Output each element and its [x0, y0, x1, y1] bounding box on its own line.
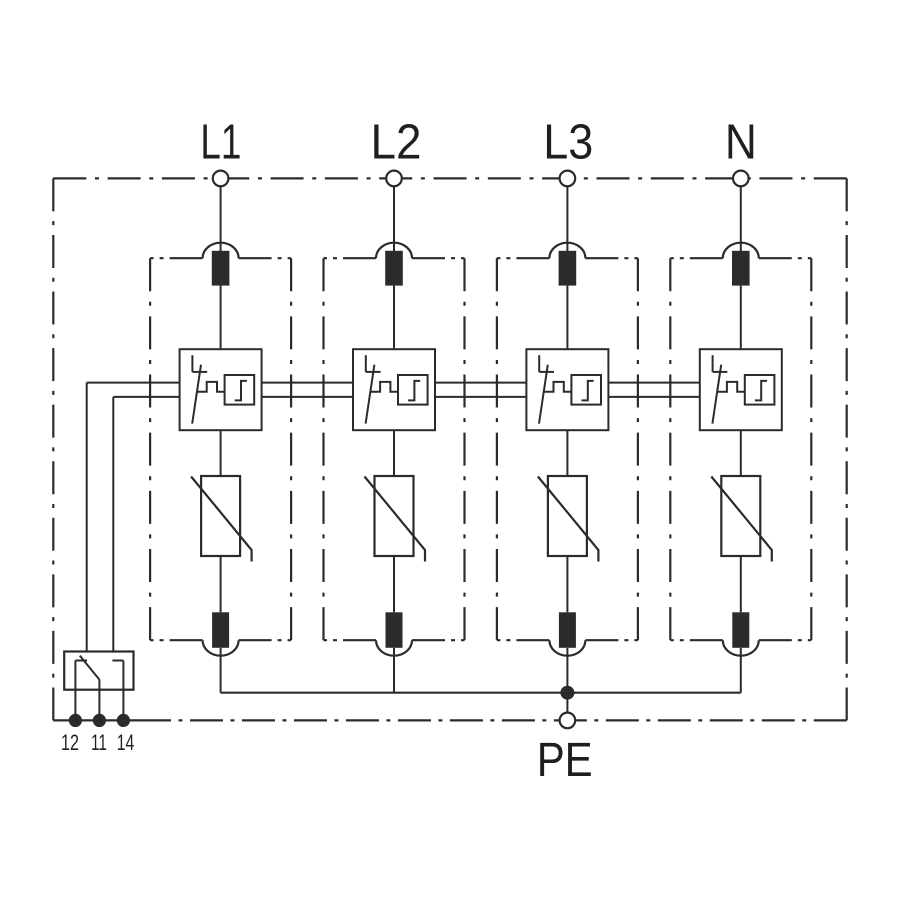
wire L3 varistor to lower element: [566, 556, 568, 612]
module box L2 bottom edge left (dash-dot): [324, 639, 377, 641]
svg-text:PE: PE: [537, 733, 593, 787]
wire N disconnector box to varistor: [740, 430, 742, 476]
module box L2 bottom bump arc: [376, 640, 412, 656]
linkage upper line signal box to L1: [87, 382, 180, 384]
terminal circle L3: [560, 171, 576, 187]
remote signalling changeover contact (12/11/14): [64, 652, 133, 721]
linkage lower line signal box to L1: [113, 396, 179, 398]
varistor L2: [365, 476, 426, 562]
terminal circle L1: [213, 171, 229, 187]
terminal dot 12: [69, 714, 82, 727]
svg-text:N: N: [725, 115, 757, 170]
outer enclosure border right (dash-dot): [846, 178, 848, 720]
wire PE junction to PE terminal: [566, 693, 568, 713]
module box L1 bottom bump arc: [203, 640, 239, 656]
wire L2 upper element to disconnector box: [393, 286, 395, 350]
junction dot PE bus: [560, 686, 574, 700]
module box L2 top bump arc: [376, 243, 412, 259]
wire L1 varistor to lower element: [220, 556, 222, 612]
wire L2 varistor to lower element: [393, 556, 395, 612]
svg-text:12: 12: [61, 730, 79, 755]
module box N right edge (dash-dot): [810, 258, 812, 640]
module box N top bump arc: [723, 243, 759, 259]
module box N bottom edge right (dash-dot): [759, 639, 812, 641]
outer enclosure border bottom (dash-dot): [138, 719, 847, 721]
linkage lower line L3 to N: [608, 396, 699, 398]
lower disconnect contact element L2 (filled): [386, 612, 403, 648]
label 12: [61, 730, 79, 755]
PE collecting bus: [221, 692, 741, 694]
module box L3 top edge right (dash-dot): [585, 257, 638, 259]
module box L1 right edge (dash-dot): [290, 258, 292, 640]
label L3: [543, 115, 593, 170]
label 11: [91, 730, 107, 755]
thermal disconnector with status indicator N: [700, 349, 782, 430]
wire L2 lower element to PE bus: [393, 648, 395, 693]
outer enclosure border top (dash-dot): [53, 177, 846, 179]
svg-text:L3: L3: [543, 115, 593, 170]
module box L2 top edge right (dash-dot): [412, 257, 465, 259]
svg-text:11: 11: [91, 730, 107, 755]
thermal disconnector with status indicator L2: [353, 349, 435, 430]
lower disconnect contact element N (filled): [732, 612, 749, 648]
upper disconnect contact element L1 (filled): [212, 251, 230, 286]
module box L2 bottom edge right (dash-dot): [412, 639, 465, 641]
module box N top edge right (dash-dot): [759, 257, 812, 259]
module box L1 top edge right (dash-dot): [239, 257, 292, 259]
terminal circle N: [733, 171, 749, 187]
wire N varistor to lower element: [740, 556, 742, 612]
wire L1 lower element to PE bus: [220, 648, 222, 693]
module box N left edge (dash-dot): [669, 258, 671, 640]
module box L3 bottom edge right (dash-dot): [585, 639, 638, 641]
label 14: [117, 730, 135, 755]
wire L2 terminal to upper disconnect element: [393, 186, 395, 251]
module box L1 top edge left (dash-dot): [150, 257, 203, 259]
lower disconnect contact element L3 (filled): [559, 612, 576, 648]
upper disconnect contact element L3 (filled): [559, 251, 577, 286]
wire L3 lower element to PE bus: [566, 648, 568, 693]
module box L2 left edge (dash-dot): [322, 258, 324, 640]
module box N bottom edge left (dash-dot): [670, 639, 723, 641]
label L2: [371, 115, 422, 170]
module box L2 top edge left (dash-dot): [324, 257, 377, 259]
linkage lower vertical drop to signal contact: [112, 397, 114, 652]
module box L3 bottom edge left (dash-dot): [497, 639, 550, 641]
module box L3 left edge (dash-dot): [496, 258, 498, 640]
module box L1 bottom edge left (dash-dot): [150, 639, 203, 641]
wire N upper element to disconnector box: [740, 286, 742, 350]
label PE: [537, 733, 593, 787]
thermal disconnector with status indicator L3: [526, 349, 608, 430]
module box L3 bottom bump arc: [549, 640, 585, 656]
varistor N: [711, 476, 772, 562]
module box L3 top edge left (dash-dot): [497, 257, 550, 259]
label L1: [200, 115, 241, 170]
thermal disconnector with status indicator L1: [180, 349, 262, 430]
outer enclosure border left (dash-dot): [52, 178, 54, 720]
wire L3 terminal to upper disconnect element: [566, 186, 568, 251]
varistor L1: [191, 476, 252, 562]
wire L3 disconnector box to varistor: [566, 430, 568, 476]
label N: [725, 115, 757, 170]
wire L1 upper element to disconnector box: [220, 286, 222, 350]
module box L2 right edge (dash-dot): [463, 258, 465, 640]
upper disconnect contact element L2 (filled): [385, 251, 403, 286]
terminal circle L2: [386, 171, 402, 187]
wire N lower element to PE bus: [740, 648, 742, 693]
linkage lower line L2 to L3: [435, 396, 526, 398]
module box N bottom bump arc: [723, 640, 759, 656]
module box N top edge left (dash-dot): [670, 257, 723, 259]
linkage upper vertical drop to signal contact: [86, 383, 88, 652]
module box L1 left edge (dash-dot): [149, 258, 151, 640]
module box L1 top bump arc: [203, 243, 239, 259]
wire L2 disconnector box to varistor: [393, 430, 395, 476]
linkage upper line L2 to L3: [435, 382, 526, 384]
outer enclosure border bottom solid segment (signal terminal rail): [53, 719, 138, 721]
wire L1 terminal to upper disconnect element: [220, 186, 222, 251]
svg-text:L1: L1: [200, 115, 241, 170]
linkage upper line L1 to L2: [262, 382, 353, 384]
linkage lower line L1 to L2: [262, 396, 353, 398]
terminal dot 14: [117, 714, 130, 727]
module box L1 bottom edge right (dash-dot): [239, 639, 292, 641]
terminal circle PE: [560, 713, 576, 729]
module box L3 top bump arc: [549, 243, 585, 259]
varistor L3: [538, 476, 599, 562]
wire L1 disconnector box to varistor: [220, 430, 222, 476]
lower disconnect contact element L1 (filled): [212, 612, 229, 648]
wire N terminal to upper disconnect element: [740, 186, 742, 251]
linkage upper line L3 to N: [608, 382, 699, 384]
svg-text:14: 14: [117, 730, 135, 755]
svg-text:L2: L2: [371, 115, 422, 170]
module box L3 right edge (dash-dot): [637, 258, 639, 640]
wire L3 upper element to disconnector box: [566, 286, 568, 350]
upper disconnect contact element N (filled): [732, 251, 750, 286]
terminal dot 11: [93, 714, 106, 727]
